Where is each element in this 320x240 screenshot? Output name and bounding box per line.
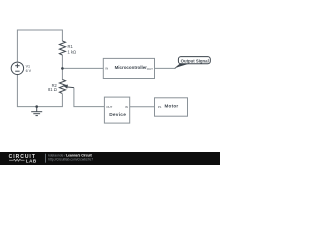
svg-text:http://circuitlab.com/c/cwbs7e: http://circuitlab.com/c/cwbs7e7 [48, 157, 93, 161]
svg-text:81 Ω: 81 Ω [48, 87, 57, 92]
svg-text:kdelaonde / Leanna’s Circuit: kdelaonde / Leanna’s Circuit [48, 153, 92, 157]
label R2 value [48, 83, 57, 92]
footer logo resistor line [9, 159, 25, 161]
wire V1 bottom to bottom rail [17, 75, 62, 107]
R2 wiper arrow [66, 86, 74, 89]
svg-text:P1: P1 [158, 105, 162, 109]
label R1 value [68, 44, 77, 54]
svg-text:1 kΩ: 1 kΩ [68, 49, 77, 54]
resistor R1 [59, 41, 65, 55]
svg-text:6 V: 6 V [26, 69, 32, 73]
wire node to microcontroller IN [62, 67, 103, 69]
footer separator [45, 154, 47, 163]
wire top rail from V1 to R1 [17, 30, 62, 62]
output flag tail [174, 64, 188, 69]
wire R1 bottom to R2 top through node [61, 55, 63, 80]
wire microcontroller OUT to output flag [155, 67, 176, 69]
svg-text:IN: IN [105, 66, 108, 70]
svg-text:LAB: LAB [26, 158, 37, 163]
Motor box [155, 98, 188, 116]
svg-text:OUT: OUT [147, 67, 153, 71]
potentiometer R2 [59, 80, 65, 94]
svg-text:Microcontroller: Microcontroller [115, 65, 148, 70]
label V1 value [26, 65, 32, 74]
svg-text:OUT: OUT [106, 105, 112, 109]
svg-text:Device: Device [109, 112, 126, 118]
microcontroller U1 box [103, 58, 154, 78]
Device box [104, 97, 129, 123]
svg-text:Motor: Motor [165, 104, 179, 109]
wire Device IN to Motor P1 [130, 106, 155, 108]
ground [35, 105, 38, 108]
svg-text:IN: IN [125, 105, 128, 109]
voltage source V1 [11, 62, 23, 74]
svg-text:V1: V1 [26, 65, 31, 69]
svg-text:R1: R1 [68, 44, 74, 49]
footer watermark bar [0, 152, 220, 165]
svg-text:Output Signal: Output Signal [181, 58, 209, 63]
output flag bubble [178, 57, 210, 64]
node junction dot [61, 67, 64, 70]
wire R2 wiper to Device OUT [74, 88, 105, 107]
